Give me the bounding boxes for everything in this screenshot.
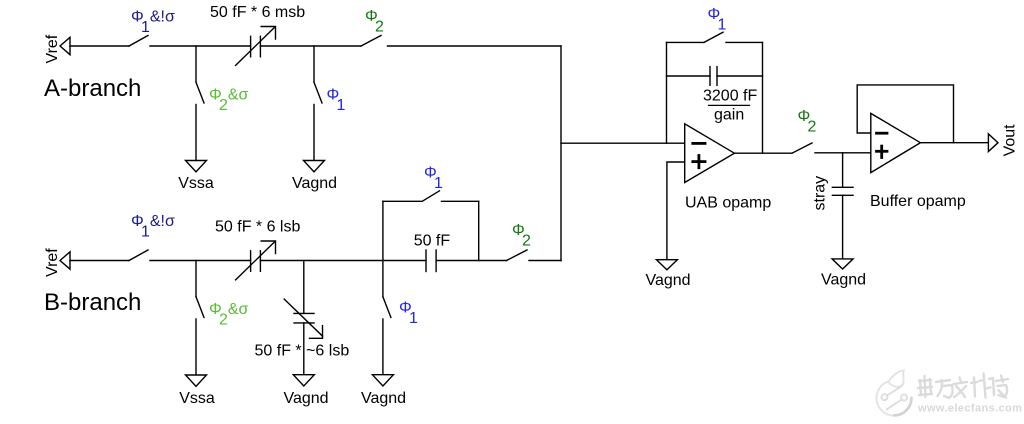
node B3 vertical wire down — [382, 261, 384, 297]
port Vref (A-branch input) — [60, 37, 70, 54]
ground Vssa (A-branch) — [186, 161, 207, 172]
wire C50 to node B4 — [436, 260, 479, 262]
ground Vagnd (B-branch switch) — [372, 375, 393, 386]
switch S5 (phi1 and not sigma, B-branch) — [129, 250, 148, 261]
ground Vagnd (stray) — [832, 259, 853, 269]
capacitor C50 50 fF — [426, 250, 436, 272]
switch S6 (phi2 and sigma, to Vssa) — [196, 297, 204, 318]
wire UAB output — [734, 152, 792, 154]
wire S9 to summing node — [529, 260, 561, 262]
wire S5 to node B1 — [150, 260, 251, 262]
svg-text:B-branch: B-branch — [44, 289, 141, 316]
svg-text:Vssa: Vssa — [178, 175, 214, 192]
wire switch S2 to ground — [195, 105, 197, 161]
node B1 vertical wire down — [195, 261, 197, 297]
wire feedback top branch left — [667, 41, 705, 43]
wire cap to node A2 — [260, 45, 361, 47]
switch S1 (phi1 and not sigma, A-branch) — [129, 36, 148, 47]
wire node B3 to C50 — [383, 260, 426, 262]
svg-text:50 fF * 6 msb: 50 fF * 6 msb — [210, 4, 305, 21]
wire buffer output — [920, 142, 988, 144]
svg-text:Φ1: Φ1 — [399, 300, 418, 328]
svg-text:Vagnd: Vagnd — [361, 390, 406, 407]
wire summing node vertical — [560, 46, 562, 261]
svg-text:50 fF: 50 fF — [414, 232, 451, 249]
ground Vagnd (A-branch) — [304, 161, 325, 172]
watermark chinese characters — [918, 374, 1008, 399]
switch S9 (phi2, B-branch output) — [507, 250, 528, 261]
op-amp U2 buffer — [871, 113, 921, 172]
switch S11 (phi2 output) — [792, 143, 812, 153]
op-amp U1 UAB — [685, 124, 735, 183]
wire switch S3 to ground — [313, 105, 315, 161]
wire S11 to stray node — [815, 152, 871, 154]
wire feedback left vertical — [666, 42, 668, 143]
switch S2 (phi2 and sigma, to Vssa) — [196, 82, 204, 103]
capacitor C-lsb variable 50 fF * 6 lsb — [236, 241, 276, 280]
capacitor C-msb variable 50 fF * 6 msb — [236, 27, 276, 66]
wire Vref to switch S1 — [70, 45, 129, 47]
svg-text:UAB opamp: UAB opamp — [685, 195, 771, 212]
wire trim cap to ground — [303, 323, 305, 375]
svg-text:gain: gain — [714, 106, 744, 123]
capacitor C-stray — [832, 187, 853, 195]
svg-text:Vout: Vout — [1002, 124, 1019, 157]
wire feedback cap branch right — [717, 75, 763, 77]
ground Vagnd (trim cap) — [293, 375, 314, 386]
switch S4 (phi2, A-branch output) — [361, 36, 381, 47]
node B3 vertical wire up to bypass branch — [382, 201, 384, 260]
wire cap to node B2 — [260, 260, 382, 262]
svg-text:Vagnd: Vagnd — [292, 175, 337, 192]
switch S7 (phi1, to Vagnd) — [383, 297, 391, 318]
capacitor C-trim variable 50 fF * ~6 lsb — [284, 299, 322, 338]
svg-text:3200 fF: 3200 fF — [703, 87, 757, 104]
svg-text:Φ2&σ: Φ2&σ — [209, 301, 249, 329]
svg-text:Φ1: Φ1 — [424, 165, 443, 193]
wire switch S6 to ground — [195, 319, 197, 375]
svg-text:www.elecfans.com: www.elecfans.com — [917, 403, 1022, 415]
svg-text:Φ2: Φ2 — [365, 8, 384, 36]
port Vout — [988, 134, 998, 152]
svg-text:Φ2: Φ2 — [798, 108, 817, 136]
wire S4 to summing node — [388, 45, 562, 47]
svg-text:Vagnd: Vagnd — [645, 272, 690, 289]
svg-text:50 fF * ~6 lsb: 50 fF * ~6 lsb — [255, 343, 350, 360]
svg-text:Φ1&!σ: Φ1&!σ — [131, 9, 175, 37]
wire buffer feedback loop — [857, 85, 953, 143]
wire bypass right vertical — [478, 201, 480, 260]
svg-text:Vref: Vref — [44, 248, 61, 277]
wire noninverting input — [667, 162, 685, 259]
capacitor C-gain 3200 fF — [710, 67, 717, 86]
svg-text:A-branch: A-branch — [44, 75, 141, 102]
wire summing node to opamp inverting input — [561, 142, 685, 144]
svg-text:Φ1&!σ: Φ1&!σ — [131, 213, 175, 241]
switch S10 (phi1 reset feedback) — [704, 32, 723, 42]
wire bypass branch right segment — [442, 200, 479, 202]
wire bypass branch left segment — [383, 200, 422, 202]
ground Vssa (B-branch) — [186, 375, 207, 386]
svg-text:stray: stray — [812, 176, 829, 211]
node A1 vertical wire down — [195, 46, 197, 82]
svg-text:50 fF * 6 lsb: 50 fF * 6 lsb — [215, 219, 300, 236]
svg-text:Φ2: Φ2 — [512, 222, 531, 250]
node B2 vertical wire down to trim cap — [303, 261, 305, 314]
wire feedback top branch right — [726, 41, 763, 43]
svg-text:Φ2&σ: Φ2&σ — [209, 87, 249, 115]
svg-text:Vagnd: Vagnd — [821, 272, 866, 289]
switch S8 (phi1 bypass) — [422, 191, 439, 202]
watermark elecfans logo — [877, 370, 912, 415]
wire Vref to switch S5 — [70, 260, 129, 262]
wire switch S7 to ground — [382, 319, 384, 375]
svg-text:Φ1: Φ1 — [708, 6, 727, 34]
svg-text:Φ1: Φ1 — [327, 86, 346, 114]
node stray vertical wire — [842, 153, 844, 188]
ground Vagnd (UAB noninverting) — [656, 260, 677, 270]
port Vref (B-branch input) — [60, 252, 70, 269]
node A2 vertical wire down — [313, 46, 315, 82]
wire feedback right vertical — [762, 42, 764, 153]
wire node B4 to switch S9 — [479, 260, 507, 262]
svg-text:Vref: Vref — [44, 34, 61, 63]
switch S3 (phi1, to Vagnd) — [314, 82, 322, 103]
wire S1 to node A1 — [150, 45, 251, 47]
wire feedback cap branch left — [667, 75, 711, 77]
svg-text:Vssa: Vssa — [179, 390, 215, 407]
svg-text:Buffer opamp: Buffer opamp — [870, 193, 966, 210]
wire stray cap to ground — [842, 195, 844, 259]
fraction bar under 3200 fF — [709, 104, 750, 106]
svg-text:Vagnd: Vagnd — [283, 390, 328, 407]
